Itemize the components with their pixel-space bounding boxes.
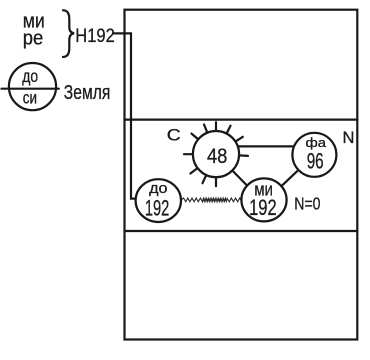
svg-text:N: N (343, 129, 355, 147)
wavy wire до to ми (182, 198, 242, 202)
wire Н192 lead into frame and down to node до192 (113, 33, 136, 198)
svg-text:Земля: Земля (64, 82, 111, 104)
svg-text:96: 96 (307, 149, 324, 174)
divider upper (125, 118, 358, 120)
frame outer rectangle (125, 10, 358, 340)
divider lower (125, 230, 358, 232)
svg-text:192: 192 (145, 195, 170, 220)
wire sun to фа (239, 145, 294, 147)
wire фа to ми (282, 171, 298, 186)
svg-text:С: С (167, 126, 181, 144)
svg-text:Н192: Н192 (75, 26, 115, 47)
svg-text:48: 48 (207, 144, 228, 168)
svg-text:до: до (22, 66, 38, 86)
node фа 96 (292, 133, 336, 177)
svg-text:си: си (23, 88, 37, 108)
node ми 192 (241, 178, 286, 221)
brace (63, 10, 74, 57)
ground chord wire (2, 88, 59, 90)
svg-text:N=0: N=0 (294, 194, 320, 214)
node до 192 (136, 179, 181, 222)
wire sun to ми (233, 171, 247, 186)
svg-text:ре: ре (23, 26, 44, 49)
svg-text:192: 192 (249, 195, 277, 220)
sun node 48 (184, 122, 248, 186)
ground circle до/си (9, 63, 56, 110)
